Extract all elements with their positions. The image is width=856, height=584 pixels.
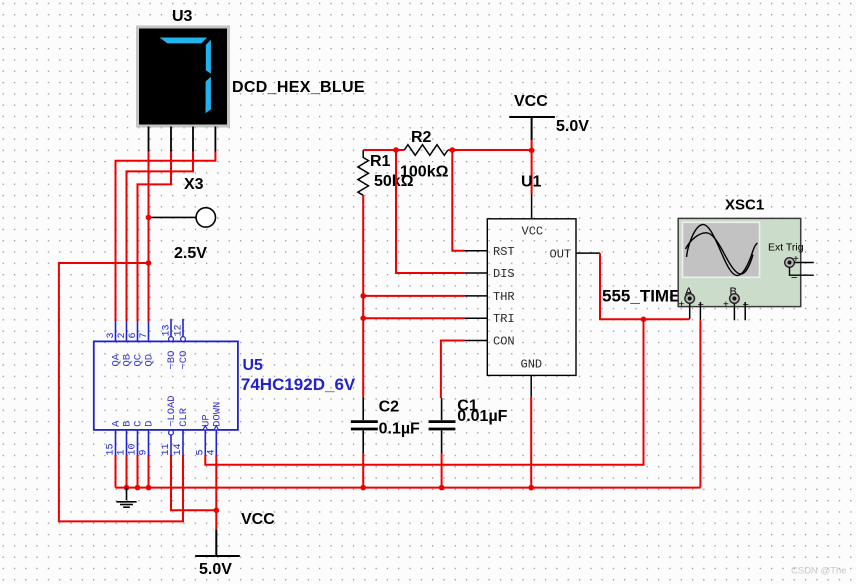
svg-text:15: 15 [106,443,117,455]
junction rail C2 [360,485,366,491]
junction R2 left [393,147,399,153]
capacitor C1 0.01uF [429,398,456,454]
wire THR branch [363,295,464,297]
ground [116,488,136,508]
wire OUT loop to U5 pin 5 UP [205,319,643,465]
svg-text:CLR: CLR [178,407,190,427]
wire net QB (display lead 3 to U5 pin 2) [127,152,194,322]
wire net QA (display lead 4 to U5 pin 3) [116,152,216,322]
power VCC bottom [195,530,240,556]
junction rail 555 GND [528,485,534,491]
U5 pin 12 bubble [181,337,186,342]
wire R1 to C2 [362,195,364,396]
junction rail pin1 [124,485,130,491]
svg-text:9: 9 [139,449,150,455]
svg-text:QD: QD [143,354,155,367]
wire CON to C1 [441,341,465,399]
svg-text:X3: X3 [184,176,204,193]
IC U1 555 timer box [487,219,576,376]
svg-text:5.0V: 5.0V [199,561,232,578]
junction OUT [641,317,647,323]
wire QD net to probe (black lead) [149,216,197,218]
wire net QC (display lead 2 to U5 pin 6) [138,152,172,322]
U5 pin 5 clock triangle [203,426,208,430]
svg-text:VCC: VCC [241,511,275,528]
probe X3 [196,208,215,227]
svg-text:RST: RST [493,245,515,259]
junction QD-probe [146,215,152,221]
wire C2 bottom to rail [362,454,364,488]
IC U5 74HC192D box [94,341,238,430]
wire U5 pin 4 DOWN to VCC [215,455,217,530]
wire OUT to scope A [600,253,690,319]
wire U5 pin 1 B to rail [126,455,128,488]
svg-text:11: 11 [161,443,172,455]
U1 pin stubs [465,194,600,397]
wire TRI branch [363,317,464,319]
svg-text:+: + [723,300,729,311]
svg-text:R2: R2 [411,129,432,146]
resistor R1 50kOhm [358,150,369,195]
U5 pin 4 clock triangle [214,426,219,430]
junction rail C1 [439,485,445,491]
svg-text:2: 2 [117,332,128,338]
junction R2 right [450,147,456,153]
U5 bottom pin stubs (blue) [116,430,217,455]
svg-text:100kΩ: 100kΩ [400,164,449,181]
wire 555 GND to rail [530,397,532,488]
svg-text:5.0V: 5.0V [556,118,589,135]
wire U5 pin 10 C to rail [137,455,139,488]
svg-text:2.5V: 2.5V [174,245,207,262]
junction rail pin10 [135,485,141,491]
wire U5 pin 11 LOAD to VCC junction [171,455,216,510]
wire DIS branch [396,150,465,273]
oscilloscope XSC1 [678,218,801,306]
svg-text:74HC192D_6V: 74HC192D_6V [241,375,356,394]
svg-text:THR: THR [493,290,515,304]
junction VCC bottom [214,508,220,514]
wire RST branch [452,150,464,251]
wire U5 pin 9 D to rail [148,455,150,488]
U5 pin 13 bubble [169,337,174,342]
svg-text:VCC: VCC [514,93,548,110]
svg-text:Ext Trig: Ext Trig [768,242,804,254]
svg-text:10: 10 [128,443,139,455]
svg-text:4: 4 [207,449,218,455]
junction VCC drop [529,148,535,154]
svg-text:TRI: TRI [493,312,515,326]
wire U5 pin 15 A to rail [115,455,117,488]
scope terminal B [723,286,749,320]
svg-text:C2: C2 [379,399,400,416]
Ext Trig terminal [785,254,814,284]
svg-text:DOWN: DOWN [211,402,223,427]
junction TRI [360,315,366,321]
svg-text:DCD_HEX_BLUE: DCD_HEX_BLUE [232,79,365,96]
resistor R2 100kOhm [404,145,448,156]
svg-text:D: D [143,421,155,427]
svg-text:CSDN @The: CSDN @The [791,566,847,577]
U5 pin 11 bubble [169,430,174,435]
svg-text:+: + [679,300,685,311]
svg-text:OUT: OUT [550,248,572,262]
svg-text:14: 14 [173,443,184,455]
capacitor C2 0.1uF [351,397,378,454]
svg-text:~LOAD: ~LOAD [166,395,178,427]
svg-text:7: 7 [139,332,150,338]
svg-text:U3: U3 [172,8,193,25]
svg-text:12: 12 [174,324,185,336]
seven-segment display U3 [138,27,229,126]
svg-text:VCC: VCC [522,225,544,239]
svg-text:0.01µF: 0.01µF [457,408,507,425]
wire scope A minus to ground rail [699,320,701,487]
svg-text:CON: CON [493,334,515,348]
wire QD net long loop to U5 pin 14 CLR [59,263,183,521]
ground rail wire [116,487,701,489]
svg-text:6: 6 [128,332,139,338]
svg-text:DIS: DIS [493,267,515,281]
wire net QD (display lead 1 to U5 pin 7) [148,152,150,322]
junction THR [360,293,366,299]
junction QD-loop [146,260,152,266]
svg-text:~BO: ~BO [166,351,178,370]
scope terminal A [679,286,704,320]
wire top rail R1/R2/VCC [363,140,531,194]
svg-text:~CO: ~CO [178,351,190,370]
wire C1 bottom to rail [441,454,443,488]
svg-text:GND: GND [521,358,543,372]
svg-text:3: 3 [106,332,117,338]
svg-text:1: 1 [117,449,128,455]
svg-text:XSC1: XSC1 [725,197,764,214]
svg-text:U1: U1 [521,174,542,191]
U5 top pin stubs (blue) [116,319,184,342]
svg-text:+: + [793,254,799,265]
svg-text:0.1µF: 0.1µF [379,421,420,438]
power VCC top [509,117,555,140]
junction rail pin9 [146,485,152,491]
display lead pins (black) [149,127,216,152]
svg-text:U5: U5 [243,357,264,374]
svg-text:R1: R1 [370,153,391,170]
svg-text:−: − [791,272,797,284]
svg-text:5: 5 [196,449,207,455]
svg-text:13: 13 [162,324,173,336]
